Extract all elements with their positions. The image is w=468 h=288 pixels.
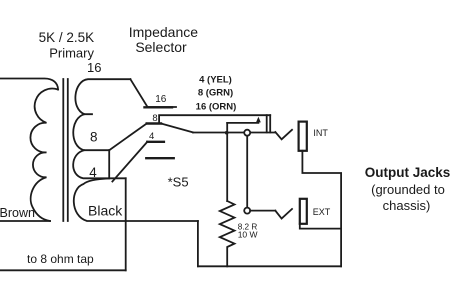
svg-text:(grounded to: (grounded to (371, 182, 445, 197)
transformer T1 primary bottom wire (Brown lead) (0, 220, 50, 222)
transformer T1 secondary winding bump 16 (75, 79, 130, 114)
switch S5 wiper wire (161, 124, 193, 133)
transformer T1 primary top wire (0, 79, 58, 90)
INT jack shorting contact plates (267, 115, 271, 132)
ground bus wire (198, 265, 341, 267)
switch S5 contact 4 (147, 141, 164, 143)
INT jack shorting spring arrowhead (256, 117, 261, 123)
wire wiper to INT jack tip spring (193, 132, 275, 134)
wire 8 tap to selector (109, 124, 147, 151)
svg-text:8: 8 (152, 113, 157, 124)
wire INT jack sleeve to ground (302, 151, 341, 266)
node circle on EXT wire (244, 208, 250, 214)
wire selector 8 contact to INT jack tip (159, 115, 270, 123)
EXT jack body (300, 199, 307, 224)
wire to 8 ohm tap vertical (125, 178, 127, 270)
wire 4 tap to selector (112, 142, 147, 182)
svg-text:*S5: *S5 (168, 174, 189, 189)
transformer T1 core (63, 79, 68, 221)
svg-text:8: 8 (90, 129, 98, 144)
wire to EXT jack tip spring (250, 210, 275, 212)
wire to 8 ohm tap horizontal (0, 269, 126, 271)
resistor R 8.2R 10W zigzag (220, 201, 235, 266)
transformer T1 secondary winding bump 8 (73, 114, 109, 150)
junction dot (225, 131, 229, 135)
svg-text:Selector: Selector (135, 39, 187, 55)
svg-text:EXT: EXT (313, 207, 331, 217)
svg-text:INT: INT (313, 128, 328, 138)
svg-text:16 (ORN): 16 (ORN) (196, 102, 237, 113)
transformer T1 secondary winding bump 4 (73, 150, 109, 178)
switch S5 contact 16 (145, 106, 173, 108)
svg-text:4: 4 (89, 165, 97, 180)
svg-text:16: 16 (155, 94, 167, 105)
wire Black lead down (197, 221, 199, 266)
svg-text:chassis): chassis) (383, 198, 431, 213)
INT jack tip spring contact (275, 130, 292, 140)
svg-text:16: 16 (87, 60, 101, 75)
node circle on INT wire (244, 130, 250, 136)
wire shorting spring to resistor R (226, 123, 228, 201)
svg-text:5K / 2.5K: 5K / 2.5K (39, 30, 95, 45)
wire node to EXT jack (vertical between circles) (246, 134, 248, 209)
switch S5 contact 8 (147, 122, 161, 124)
svg-text:4 (YEL): 4 (YEL) (199, 75, 232, 86)
svg-text:Output Jacks: Output Jacks (365, 165, 451, 180)
svg-text:8 (GRN): 8 (GRN) (198, 88, 233, 99)
svg-text:to 8 ohm tap: to 8 ohm tap (27, 252, 94, 266)
svg-text:Black: Black (88, 202, 123, 218)
svg-text:10 W: 10 W (238, 229, 258, 239)
transformer T1 primary winding (30, 89, 58, 221)
wire to 8 ohm tap stub (109, 177, 126, 179)
wire 16 tap to selector (130, 79, 176, 107)
INT jack shorting spring wire (227, 120, 258, 123)
transformer T1 secondary winding bump Black (74, 178, 198, 221)
svg-text:Brown: Brown (0, 206, 35, 220)
wire EXT jack sleeve to ground (300, 224, 341, 229)
switch S5 unused contact (146, 157, 173, 159)
EXT jack tip spring contact (275, 209, 292, 219)
svg-text:Impedance: Impedance (129, 24, 198, 40)
svg-text:Primary: Primary (49, 46, 94, 61)
INT jack body (299, 122, 307, 151)
svg-text:4: 4 (149, 131, 154, 142)
